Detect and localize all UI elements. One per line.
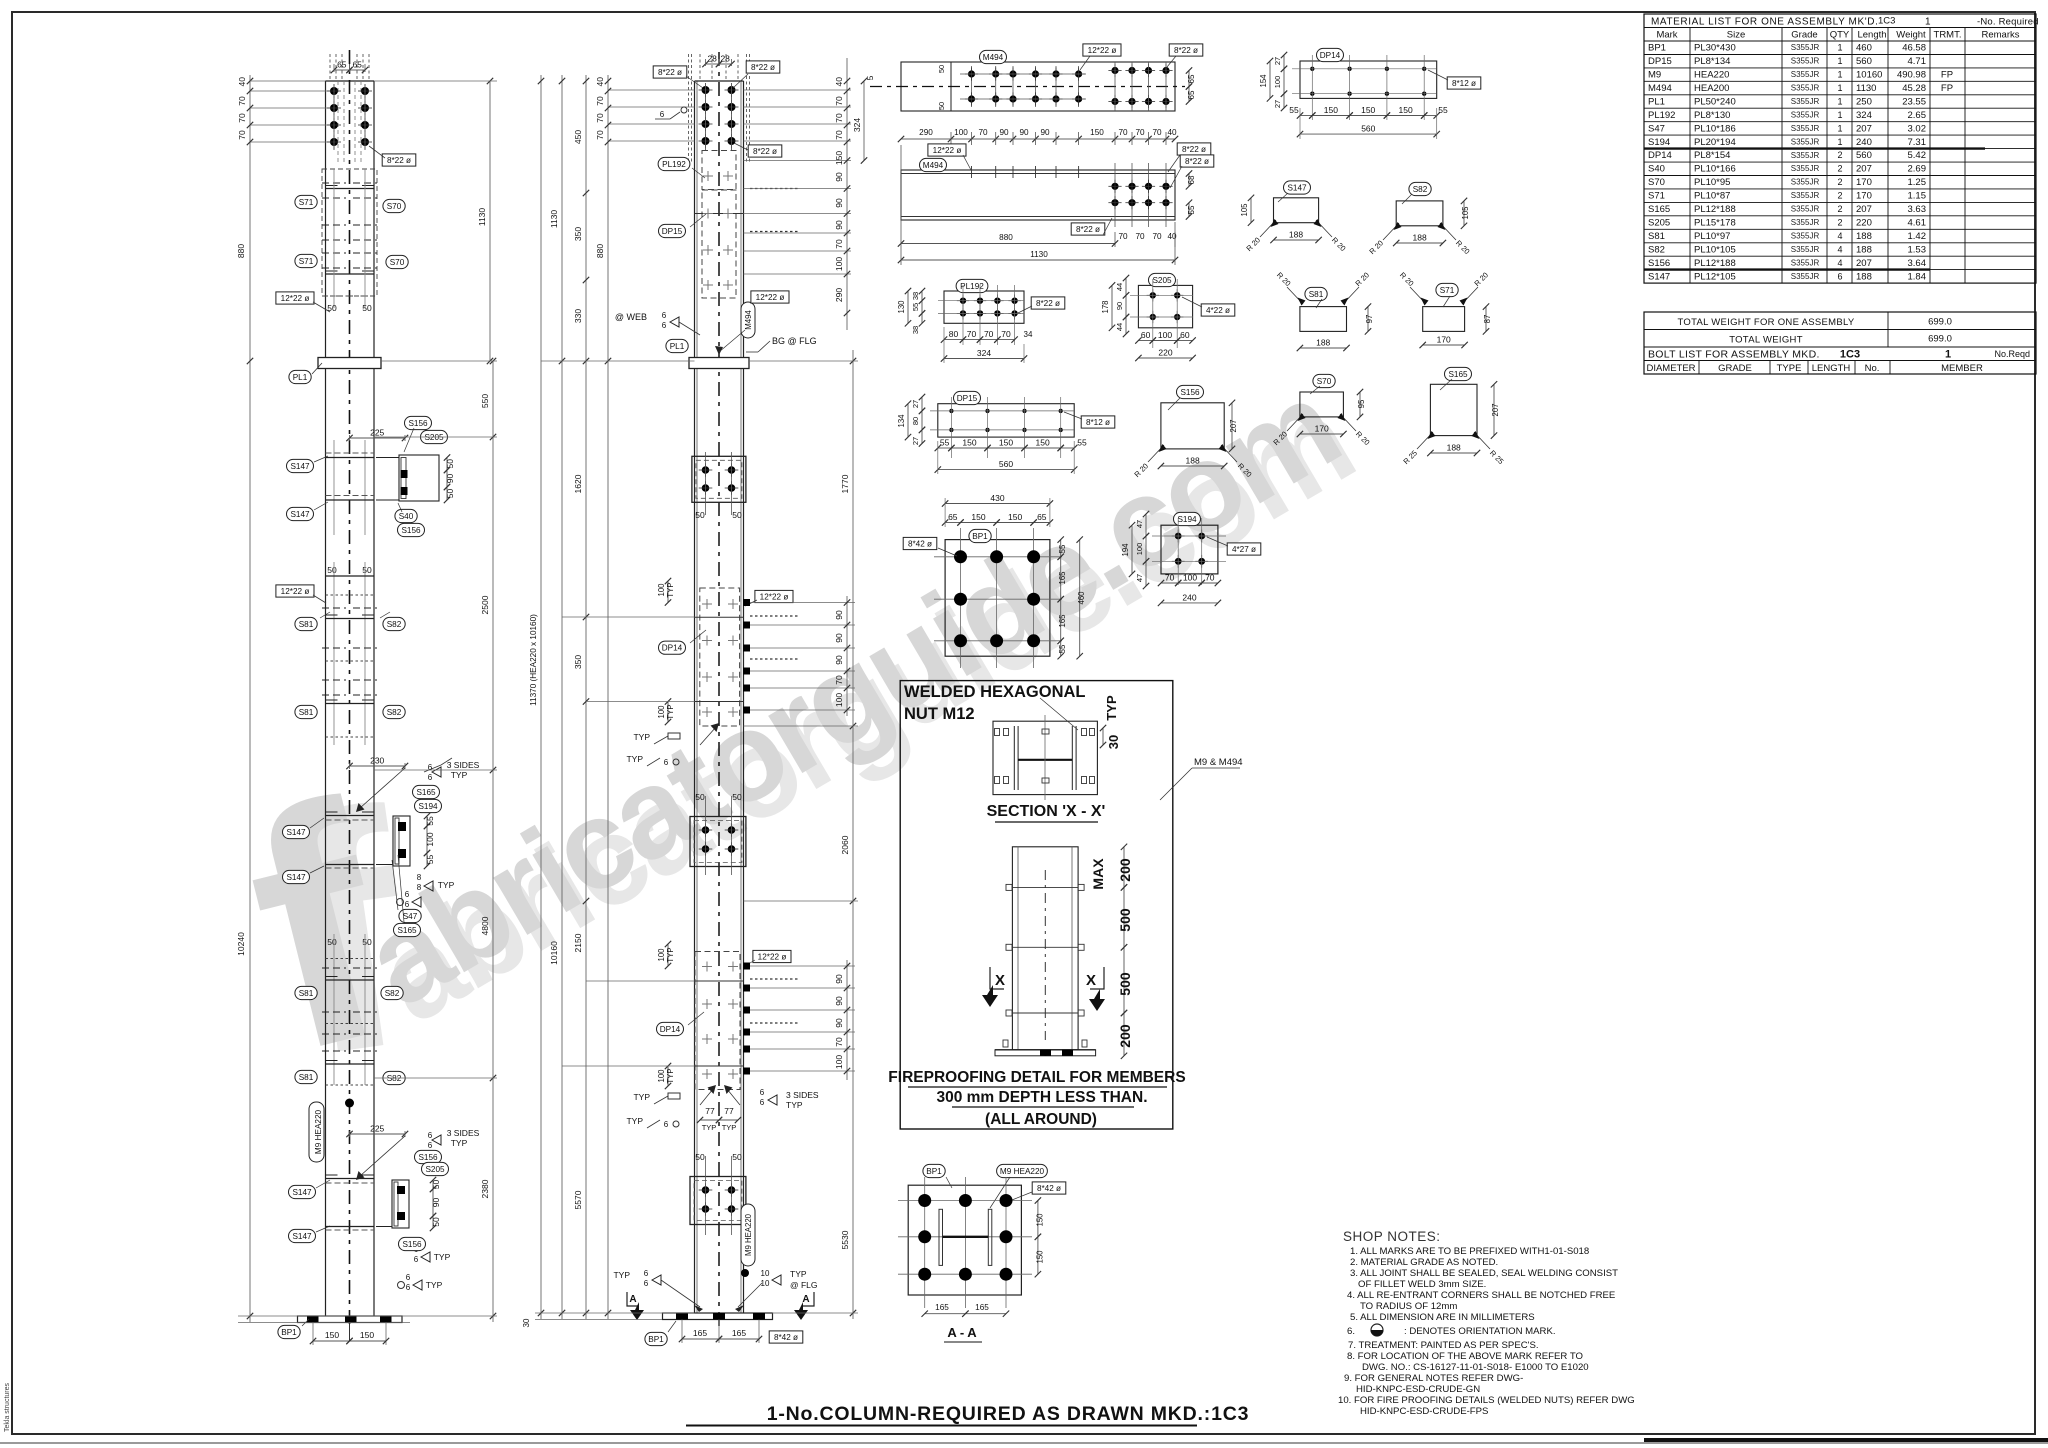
stiffener band bottom (band F)	[326, 1178, 375, 1180]
side stiffener assembly S194/S47 (plan at band D)	[393, 816, 410, 866]
svg-text:240: 240	[1182, 592, 1196, 602]
svg-text:65: 65	[1187, 74, 1196, 83]
svg-text:2: 2	[1837, 177, 1842, 187]
svg-text:170: 170	[1856, 191, 1872, 202]
svg-text:12*22 ø: 12*22 ø	[1088, 46, 1117, 55]
svg-text:M494: M494	[1648, 83, 1672, 94]
svg-text:150: 150	[1036, 1213, 1045, 1227]
svg-text:No.: No.	[1865, 363, 1880, 374]
svg-text:10: 10	[761, 1269, 770, 1278]
svg-text:8*22 ø: 8*22 ø	[1174, 46, 1198, 55]
svg-text:PL1: PL1	[293, 373, 308, 382]
svg-text:S205: S205	[1648, 218, 1670, 229]
svg-text:220: 220	[1158, 348, 1172, 358]
svg-text:7. TREATMENT: PAINTED AS PER S: 7. TREATMENT: PAINTED AS PER SPEC'S.	[1348, 1340, 1539, 1351]
svg-text:1C3: 1C3	[1878, 16, 1895, 27]
svg-text:77: 77	[724, 1106, 734, 1116]
svg-text:50: 50	[327, 937, 337, 947]
detail plate S165	[1401, 367, 1505, 466]
svg-text:TYP: TYP	[626, 754, 643, 764]
svg-text:170: 170	[1437, 335, 1451, 345]
svg-text:Mark: Mark	[1656, 30, 1677, 41]
svg-text:5530: 5530	[840, 1230, 850, 1249]
svg-text:S355JR: S355JR	[1791, 245, 1820, 254]
svg-text:FIREPROOFING DETAIL FOR MEMBER: FIREPROOFING DETAIL FOR MEMBERS	[888, 1069, 1185, 1086]
svg-text:2500: 2500	[480, 595, 490, 614]
svg-text:M494: M494	[744, 310, 753, 330]
svg-text:S81: S81	[299, 620, 314, 629]
svg-text:6: 6	[1837, 271, 1842, 281]
svg-text:100: 100	[834, 257, 844, 271]
svg-text:207: 207	[1856, 164, 1872, 175]
svg-text:38: 38	[911, 326, 920, 334]
svg-text:170: 170	[1856, 177, 1872, 188]
svg-text:TYP: TYP	[666, 1068, 675, 1083]
svg-text:PL30*430: PL30*430	[1694, 43, 1736, 54]
svg-text:12*22 ø: 12*22 ø	[756, 293, 785, 302]
svg-text:90: 90	[834, 198, 844, 208]
svg-text:150: 150	[1090, 128, 1104, 137]
svg-text:30: 30	[522, 1318, 531, 1327]
svg-text:S40: S40	[1648, 164, 1665, 175]
svg-text:PL12*188: PL12*188	[1694, 258, 1736, 269]
svg-text:207: 207	[1491, 403, 1500, 416]
svg-text:6: 6	[405, 890, 410, 899]
svg-text:70: 70	[834, 239, 844, 249]
svg-text:50: 50	[431, 1180, 441, 1190]
svg-text:@ WEB: @ WEB	[615, 312, 647, 322]
svg-text:47: 47	[1135, 574, 1144, 582]
svg-text:6: 6	[644, 1269, 649, 1278]
weld note 3 sides (mid)	[350, 765, 406, 767]
svg-text:6: 6	[660, 110, 665, 119]
svg-text:150: 150	[1399, 105, 1413, 115]
svg-text:10160: 10160	[1856, 70, 1882, 81]
svg-text:90: 90	[445, 474, 455, 484]
weld note band F	[350, 1133, 406, 1135]
svg-text:S71: S71	[299, 257, 314, 266]
detail base plate BP1 plan	[903, 493, 1086, 668]
box 12*22 top	[751, 291, 789, 303]
svg-text:68: 68	[1187, 175, 1196, 184]
svg-text:105: 105	[1461, 206, 1470, 220]
svg-text:GRADE: GRADE	[1718, 363, 1752, 374]
svg-text:TYP: TYP	[790, 1269, 807, 1279]
svg-text:50: 50	[937, 65, 946, 73]
svg-text:11370 (HEA220 x 10160): 11370 (HEA220 x 10160)	[529, 614, 538, 706]
svg-text:S81: S81	[299, 708, 314, 717]
beam M494 elevation view	[898, 128, 1214, 265]
svg-text:70: 70	[1118, 128, 1128, 137]
svg-text:S194: S194	[1648, 137, 1670, 148]
svg-text:100: 100	[1183, 573, 1197, 583]
svg-text:188: 188	[1289, 230, 1303, 240]
svg-text:100: 100	[1158, 330, 1172, 340]
svg-text:699.0: 699.0	[1928, 334, 1952, 345]
svg-text:90: 90	[431, 1198, 441, 1208]
svg-text:80: 80	[949, 329, 959, 339]
svg-text:70: 70	[595, 96, 605, 106]
svg-text:3. ALL JOINT SHALL BE SEALED,: 3. ALL JOINT SHALL BE SEALED, SEAL WELDI…	[1350, 1268, 1618, 1279]
svg-text:490.98: 490.98	[1897, 70, 1926, 81]
svg-text:S71: S71	[1440, 286, 1455, 295]
svg-text:8*22 ø: 8*22 ø	[1036, 299, 1060, 308]
svg-text:S70: S70	[387, 202, 402, 211]
svg-text:TYP: TYP	[633, 1092, 650, 1102]
svg-text:S165: S165	[397, 926, 417, 935]
svg-text:1: 1	[1837, 123, 1842, 133]
svg-text:1.15: 1.15	[1908, 191, 1927, 202]
beam M494 plan view	[870, 44, 1203, 111]
svg-text:NUT M12: NUT M12	[904, 705, 975, 723]
svg-text:PL1: PL1	[1648, 97, 1665, 108]
svg-text:S156: S156	[402, 1240, 422, 1249]
col2 right long dims	[852, 350, 854, 1319]
svg-text:4: 4	[1837, 258, 1842, 268]
splice plate PL1 (view2)	[689, 358, 749, 369]
svg-text:188: 188	[1413, 233, 1427, 243]
svg-text:S147: S147	[292, 1232, 312, 1241]
svg-text:2.65: 2.65	[1908, 110, 1927, 121]
svg-text:70: 70	[1152, 128, 1162, 137]
svg-text:97: 97	[1365, 315, 1374, 324]
svg-text:FP: FP	[1941, 83, 1953, 94]
base plate BP1 (view1)	[298, 1316, 403, 1323]
svg-text:50: 50	[695, 1152, 705, 1162]
col2 splice box 1	[692, 456, 746, 502]
svg-text:1C3: 1C3	[1840, 349, 1860, 361]
svg-text:188: 188	[1186, 456, 1200, 466]
svg-text:55: 55	[1289, 105, 1299, 115]
svg-text:8: 8	[417, 883, 422, 892]
svg-text:S156: S156	[1648, 258, 1670, 269]
svg-text:55: 55	[940, 438, 950, 448]
svg-text:70: 70	[984, 329, 994, 339]
svg-text:70: 70	[237, 113, 247, 123]
svg-text:6: 6	[405, 900, 410, 909]
svg-text:12*22 ø: 12*22 ø	[281, 587, 310, 596]
column H section in A-A	[939, 1209, 943, 1265]
svg-text:178: 178	[1101, 300, 1110, 313]
svg-text:8*22 ø: 8*22 ø	[1182, 145, 1206, 154]
detail plate S194	[1121, 511, 1261, 606]
svg-text:28: 28	[707, 54, 717, 64]
svg-text:150: 150	[1036, 438, 1050, 448]
svg-text:70: 70	[1135, 128, 1145, 137]
svg-text:@ FLG: @ FLG	[790, 1280, 818, 1290]
svg-text:150: 150	[971, 512, 985, 522]
svg-text:3 SIDES: 3 SIDES	[786, 1090, 819, 1100]
svg-text:PL10*87: PL10*87	[1694, 191, 1730, 202]
svg-text:TRMT.: TRMT.	[1934, 30, 1962, 41]
shop notes text	[1338, 1229, 1635, 1417]
svg-text:DP15: DP15	[1648, 56, 1672, 67]
svg-text:TYP: TYP	[451, 770, 468, 780]
svg-text:50: 50	[362, 937, 372, 947]
svg-text:70: 70	[1165, 573, 1175, 583]
svg-text:S355JR: S355JR	[1791, 191, 1820, 200]
svg-text:DP14: DP14	[662, 644, 683, 653]
svg-text:27: 27	[1273, 100, 1282, 108]
orientation mark on column 1	[345, 1099, 354, 1108]
svg-text:40: 40	[237, 77, 247, 87]
svg-text:BOLT LIST FOR ASSEMBLY MKD.: BOLT LIST FOR ASSEMBLY MKD.	[1648, 349, 1820, 361]
svg-text:34: 34	[1024, 330, 1033, 339]
svg-text:40: 40	[595, 77, 605, 87]
svg-text:TYP: TYP	[666, 947, 675, 962]
svg-text:27: 27	[1273, 57, 1282, 65]
svg-text:880: 880	[236, 244, 246, 258]
main column shaft view1	[325, 369, 327, 1317]
svg-text:S82: S82	[387, 620, 402, 629]
svg-text:HID-KNPC-ESD-CRUDE-GN: HID-KNPC-ESD-CRUDE-GN	[1356, 1384, 1480, 1395]
svg-text:100: 100	[1135, 543, 1144, 556]
svg-text:DP15: DP15	[662, 227, 683, 236]
svg-text:PL8*154: PL8*154	[1694, 150, 1730, 161]
svg-text:S355JR: S355JR	[1791, 124, 1820, 133]
svg-text:70: 70	[1205, 573, 1215, 583]
svg-text:DP15: DP15	[957, 394, 978, 403]
svg-text:8*42 ø: 8*42 ø	[1037, 1184, 1061, 1193]
svg-text:10. FOR FIRE PROOFING DETAILS: 10. FOR FIRE PROOFING DETAILS (WELDED NU…	[1338, 1395, 1635, 1406]
svg-text:WELDED HEXAGONAL: WELDED HEXAGONAL	[904, 683, 1086, 701]
svg-text:150: 150	[962, 438, 976, 448]
svg-text:S147: S147	[286, 873, 306, 882]
svg-text:165: 165	[732, 1328, 746, 1338]
svg-text:S82: S82	[387, 1074, 402, 1083]
svg-text:12*22 ø: 12*22 ø	[933, 146, 962, 155]
svg-text:70: 70	[834, 130, 844, 140]
svg-text:3.63: 3.63	[1908, 204, 1927, 215]
svg-text:1: 1	[1837, 56, 1842, 66]
col2 splice box 2	[690, 817, 746, 867]
svg-text:TOTAL WEIGHT: TOTAL WEIGHT	[1729, 335, 1803, 346]
svg-text:8*22 ø: 8*22 ø	[1076, 225, 1100, 234]
svg-text:A: A	[629, 1294, 636, 1305]
column M9 elevation (view 1)	[236, 50, 497, 1345]
svg-text:100: 100	[657, 583, 666, 597]
svg-text:A: A	[802, 1294, 809, 1305]
svg-text:324: 324	[852, 118, 862, 132]
svg-text:S355JR: S355JR	[1791, 84, 1820, 93]
svg-text:No.Reqd: No.Reqd	[1994, 349, 2030, 359]
svg-text:150: 150	[1324, 105, 1338, 115]
svg-text:560: 560	[999, 459, 1013, 469]
svg-text:100: 100	[657, 705, 666, 719]
svg-text:S205: S205	[424, 433, 444, 442]
svg-text:S40: S40	[399, 512, 414, 521]
svg-text:100: 100	[657, 948, 666, 962]
svg-text:TYP: TYP	[666, 582, 675, 597]
svg-text:40: 40	[1167, 232, 1177, 241]
hidden beam lines right of col2 top	[750, 188, 800, 190]
svg-text:6: 6	[760, 1098, 765, 1107]
svg-text:90: 90	[834, 1018, 844, 1028]
svg-text:PL12*105: PL12*105	[1694, 271, 1736, 282]
svg-text:S355JR: S355JR	[1791, 110, 1820, 119]
svg-text:45.28: 45.28	[1902, 83, 1926, 94]
fireproofing detail box	[888, 681, 1242, 1129]
svg-text:M494: M494	[923, 161, 944, 170]
svg-text:2: 2	[1837, 218, 1842, 228]
section X-X drawing	[993, 721, 1097, 794]
base plate BP1 (view2)	[663, 1313, 773, 1320]
svg-text:207: 207	[1856, 123, 1872, 134]
svg-text:90: 90	[834, 996, 844, 1006]
svg-text:DP14: DP14	[1648, 150, 1672, 161]
svg-text:6: 6	[664, 1120, 669, 1129]
svg-text:TYP: TYP	[434, 1252, 451, 1262]
svg-text:250: 250	[1856, 97, 1872, 108]
svg-text:TYP: TYP	[786, 1100, 803, 1110]
svg-text:BP1: BP1	[926, 1167, 942, 1176]
svg-text:S81: S81	[1309, 290, 1324, 299]
svg-text:1.42: 1.42	[1908, 231, 1927, 242]
svg-text:Weight: Weight	[1896, 30, 1926, 41]
svg-text:TYPE: TYPE	[1777, 363, 1802, 374]
svg-text:BP1: BP1	[972, 532, 988, 541]
svg-text:4: 4	[1837, 244, 1842, 254]
plate DP15 dashed outline	[702, 190, 736, 298]
svg-text:330: 330	[573, 309, 583, 323]
svg-text:150: 150	[1361, 105, 1375, 115]
svg-text:S355JR: S355JR	[1791, 70, 1820, 79]
svg-text:200: 200	[1117, 858, 1133, 882]
svg-text:12*22 ø: 12*22 ø	[760, 593, 789, 602]
svg-text:M9 & M494: M9 & M494	[1194, 757, 1243, 768]
svg-text:60: 60	[1141, 330, 1151, 340]
svg-text:9. FOR GENERAL NOTES REFER DWG: 9. FOR GENERAL NOTES REFER DWG-	[1344, 1373, 1523, 1384]
svg-text:S156: S156	[401, 526, 421, 535]
svg-text:PL8*130: PL8*130	[1694, 110, 1730, 121]
svg-text:BP1: BP1	[281, 1328, 297, 1337]
svg-text:350: 350	[573, 655, 583, 669]
detail plate DP15	[897, 391, 1115, 474]
total weight and bolt list table	[1644, 312, 2036, 374]
svg-text:3.64: 3.64	[1908, 258, 1927, 269]
svg-text:38: 38	[911, 292, 920, 300]
svg-text:1: 1	[1837, 110, 1842, 120]
svg-text:55: 55	[1058, 644, 1067, 653]
svg-text:50: 50	[732, 510, 742, 520]
svg-text:70: 70	[595, 130, 605, 140]
svg-text:70: 70	[237, 96, 247, 106]
svg-text:S147: S147	[292, 1188, 312, 1197]
svg-text:105: 105	[1240, 203, 1249, 217]
svg-text:460: 460	[1856, 43, 1872, 54]
detail plate S71	[1398, 270, 1492, 348]
svg-text:2150: 2150	[573, 933, 583, 952]
splice plate PL1 (view1)	[318, 358, 381, 369]
svg-text:1: 1	[1837, 97, 1842, 107]
svg-text:150: 150	[325, 1330, 339, 1340]
svg-text:6.: 6.	[1347, 1326, 1355, 1337]
svg-text:4: 4	[1837, 231, 1842, 241]
svg-text:PL8*134: PL8*134	[1694, 56, 1730, 67]
svg-text:S82: S82	[385, 989, 400, 998]
svg-text:MEMBER: MEMBER	[1941, 363, 1983, 374]
svg-text:880: 880	[999, 233, 1013, 242]
svg-text:6: 6	[428, 1141, 433, 1150]
plate DP14 region 1 (view2)	[700, 588, 740, 726]
svg-text:194: 194	[1121, 543, 1130, 557]
svg-text:S165: S165	[416, 788, 436, 797]
svg-text:46.58: 46.58	[1902, 43, 1926, 54]
svg-text:50: 50	[445, 489, 455, 499]
svg-text:BP1: BP1	[648, 1335, 664, 1344]
svg-text:12*22 ø: 12*22 ø	[758, 953, 787, 962]
svg-text:560: 560	[1856, 150, 1872, 161]
svg-text:2: 2	[1837, 204, 1842, 214]
svg-text:5570: 5570	[573, 1190, 583, 1209]
detail plate S70	[1271, 374, 1371, 447]
M494 member label (rotated)	[741, 302, 755, 338]
svg-text:8. FOR LOCATION OF THE ABOVE M: 8. FOR LOCATION OF THE ABOVE MARK REFER …	[1347, 1351, 1583, 1362]
detail plate S205	[1101, 273, 1235, 361]
svg-text:90: 90	[1115, 302, 1124, 310]
svg-text:6: 6	[662, 311, 667, 320]
svg-text:188: 188	[1856, 231, 1872, 242]
svg-text:200: 200	[1117, 1024, 1133, 1048]
svg-text:70: 70	[978, 128, 988, 137]
svg-text:70: 70	[1152, 232, 1162, 241]
svg-text:150: 150	[1036, 1250, 1045, 1264]
svg-text:560: 560	[1856, 56, 1872, 67]
svg-text:S355JR: S355JR	[1791, 258, 1820, 267]
svg-text:PL10*95: PL10*95	[1694, 177, 1730, 188]
svg-text:6: 6	[414, 1255, 419, 1264]
watermark fabricatorguide.com	[217, 355, 1374, 1126]
svg-text:95: 95	[1357, 399, 1366, 408]
svg-text:2060: 2060	[840, 835, 850, 854]
svg-text:TYP: TYP	[451, 1138, 468, 1148]
svg-text:(ALL AROUND): (ALL AROUND)	[985, 1111, 1097, 1128]
svg-text:M494: M494	[983, 53, 1004, 62]
svg-text:S70: S70	[1648, 177, 1665, 188]
svg-text:PL50*240: PL50*240	[1694, 97, 1736, 108]
svg-text:44: 44	[1115, 323, 1124, 331]
svg-text:A - A: A - A	[947, 1325, 977, 1340]
svg-text:5: 5	[865, 75, 875, 80]
svg-text:165: 165	[935, 1303, 949, 1312]
detail plate S81	[1275, 270, 1374, 351]
svg-text:S81: S81	[299, 1073, 314, 1082]
svg-text:4.71: 4.71	[1908, 56, 1927, 67]
svg-text:880: 880	[595, 244, 605, 258]
svg-text:6: 6	[406, 1273, 411, 1282]
svg-text:PL192: PL192	[960, 282, 984, 291]
svg-text:28: 28	[720, 54, 730, 64]
svg-text:Grade: Grade	[1791, 30, 1817, 41]
stiffener band S147/S194 (band D)	[413, 785, 440, 798]
svg-text:100: 100	[425, 832, 435, 846]
svg-text:8*12 ø: 8*12 ø	[1086, 418, 1110, 427]
svg-text:40: 40	[834, 77, 844, 87]
svg-text:430: 430	[990, 493, 1004, 503]
svg-text:MATERIAL LIST FOR ONE ASSEMBLY: MATERIAL LIST FOR ONE ASSEMBLY MK'D.	[1651, 17, 1878, 28]
svg-text:70: 70	[1001, 329, 1011, 339]
svg-text:S205: S205	[425, 1165, 445, 1174]
svg-text:TYP: TYP	[426, 1280, 443, 1290]
svg-text:70: 70	[834, 675, 844, 685]
svg-text:TYP: TYP	[722, 1123, 737, 1132]
column M9 elevation (view 2)	[522, 52, 875, 1346]
svg-text:55: 55	[425, 816, 435, 826]
svg-text:FP: FP	[1941, 70, 1953, 81]
svg-text:90: 90	[999, 128, 1009, 137]
svg-text:60: 60	[1180, 330, 1190, 340]
svg-text:S355JR: S355JR	[1791, 272, 1820, 281]
